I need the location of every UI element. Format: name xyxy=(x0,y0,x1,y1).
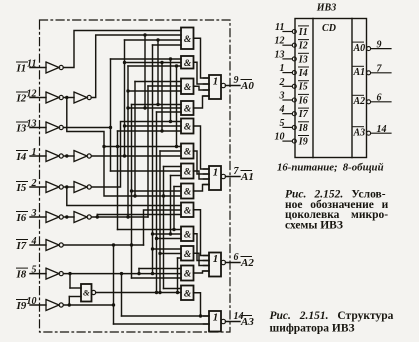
svg-text:10: 10 xyxy=(275,132,285,143)
svg-text:5: 5 xyxy=(280,118,285,129)
svg-text:1: 1 xyxy=(213,312,219,324)
svg-text:12: 12 xyxy=(27,89,37,100)
svg-text:9: 9 xyxy=(377,39,382,50)
svg-text:A1: A1 xyxy=(240,171,254,183)
svg-text:I4: I4 xyxy=(298,68,308,79)
svg-text:6: 6 xyxy=(377,93,382,104)
svg-text:9: 9 xyxy=(234,75,239,86)
svg-text:&: & xyxy=(184,289,192,299)
svg-text:&: & xyxy=(83,288,90,298)
svg-text:ИВ3: ИВ3 xyxy=(316,3,336,14)
svg-text:1: 1 xyxy=(213,167,219,179)
svg-text:шифратора ИВЗ: шифратора ИВЗ xyxy=(270,323,355,335)
svg-text:&: & xyxy=(184,83,192,93)
svg-text:13: 13 xyxy=(27,119,37,130)
svg-text:I7: I7 xyxy=(16,240,27,252)
svg-text:I2: I2 xyxy=(16,93,27,105)
svg-text:10: 10 xyxy=(27,296,37,307)
svg-text:I1: I1 xyxy=(298,27,308,38)
svg-text:&: & xyxy=(184,148,192,158)
svg-text:&: & xyxy=(184,270,192,280)
svg-text:6: 6 xyxy=(234,252,239,263)
svg-text:I3: I3 xyxy=(16,123,27,135)
svg-text:2: 2 xyxy=(279,77,285,88)
svg-text:I9: I9 xyxy=(298,137,308,148)
svg-text:&: & xyxy=(184,188,192,198)
svg-text:12: 12 xyxy=(275,36,285,47)
svg-text:I8: I8 xyxy=(298,123,308,134)
svg-text:&: & xyxy=(184,123,192,133)
svg-text:I8: I8 xyxy=(16,269,27,281)
svg-text:A0: A0 xyxy=(240,80,254,92)
svg-text:16-питание; 8-общий: 16-питание; 8-общий xyxy=(277,162,384,174)
svg-text:&: & xyxy=(184,230,192,240)
svg-text:I1: I1 xyxy=(16,63,27,75)
svg-text:I6: I6 xyxy=(298,95,308,106)
svg-text:I4: I4 xyxy=(16,151,27,163)
svg-text:1: 1 xyxy=(280,63,285,74)
svg-text:&: & xyxy=(184,168,192,178)
svg-text:11: 11 xyxy=(275,22,284,33)
svg-text:I6: I6 xyxy=(16,212,27,224)
svg-text:I5: I5 xyxy=(16,182,27,194)
svg-text:3: 3 xyxy=(31,208,37,219)
svg-text:11: 11 xyxy=(27,59,36,70)
svg-text:I3: I3 xyxy=(298,54,308,65)
svg-text:4: 4 xyxy=(31,236,37,247)
svg-text:1: 1 xyxy=(213,253,219,265)
svg-text:CD: CD xyxy=(322,23,336,34)
svg-text:A2: A2 xyxy=(240,257,254,269)
svg-text:&: & xyxy=(184,250,192,260)
svg-text:A2: A2 xyxy=(353,96,366,107)
svg-text:A1: A1 xyxy=(353,67,366,78)
svg-text:13: 13 xyxy=(275,49,285,60)
svg-text:2: 2 xyxy=(31,178,37,189)
svg-text:Рис. 2.151. Структура: Рис. 2.151. Структура xyxy=(270,310,394,322)
svg-text:4: 4 xyxy=(279,104,285,115)
svg-text:14: 14 xyxy=(377,124,387,135)
svg-text:A3: A3 xyxy=(240,316,254,328)
svg-text:&: & xyxy=(184,206,192,216)
svg-text:A0: A0 xyxy=(353,43,366,54)
svg-text:I2: I2 xyxy=(298,41,308,52)
svg-text:&: & xyxy=(184,59,192,69)
svg-text:схемы ИВЗ: схемы ИВЗ xyxy=(285,219,343,231)
svg-text:I7: I7 xyxy=(298,109,309,120)
svg-text:I5: I5 xyxy=(298,82,308,93)
svg-text:&: & xyxy=(184,35,192,45)
svg-text:I9: I9 xyxy=(16,300,27,312)
svg-text:5: 5 xyxy=(32,265,37,276)
svg-text:&: & xyxy=(184,105,192,115)
svg-text:1: 1 xyxy=(32,147,37,158)
svg-text:1: 1 xyxy=(213,76,219,88)
svg-text:A3: A3 xyxy=(353,128,366,139)
svg-text:3: 3 xyxy=(279,91,285,102)
